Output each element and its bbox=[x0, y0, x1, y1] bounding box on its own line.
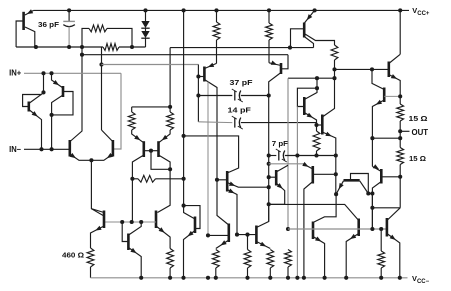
bottom VCC- rail bbox=[91, 277, 408, 279]
node Q3 base-collector tie bbox=[50, 113, 54, 117]
label 36 pF bbox=[38, 20, 59, 29]
label 460 ohm bbox=[62, 251, 84, 260]
junction R11 base-wire tap bbox=[286, 227, 290, 231]
junction Q24 base on x336 bbox=[334, 172, 338, 176]
transistor Q22 (diode-connected, horizontal bar) bbox=[336, 174, 368, 195]
svg-text:36 pF: 36 pF bbox=[38, 20, 59, 29]
wire OUT stub bbox=[400, 130, 409, 132]
junction rail R15 bbox=[379, 276, 383, 280]
junction rail Q24C bbox=[302, 276, 306, 280]
junction rail x297 bbox=[295, 276, 299, 280]
label OUT bbox=[412, 128, 429, 137]
wire bias column x183 bbox=[183, 10, 185, 205]
resistor R269 (Q7 emitter) bbox=[266, 10, 273, 62]
transistor Q15 (NPN) bbox=[269, 165, 288, 204]
wire QB collector down to Q12 bbox=[158, 169, 171, 212]
svg-text:OUT: OUT bbox=[412, 128, 429, 137]
junction R6 right on bias column bbox=[182, 177, 186, 181]
junction base wire 3 bbox=[139, 220, 143, 224]
wire Q7 collector spine x268 bbox=[268, 96, 270, 222]
node Q13 base-collector tie bbox=[182, 204, 186, 208]
junction 7pF tap bbox=[267, 153, 271, 157]
junction wire y78 bbox=[332, 76, 336, 80]
wire x101 vertical bbox=[101, 47, 103, 130]
svg-text:37 pF: 37 pF bbox=[230, 78, 253, 87]
wire E1 to Q11 collector bbox=[91, 160, 104, 216]
resistor R13 15 ohm upper bbox=[397, 96, 404, 138]
wire net-C drop bbox=[197, 65, 199, 122]
transistor Q28 (diode-connected NPN) bbox=[122, 222, 141, 278]
wire Q9 tie drop bbox=[316, 78, 318, 88]
junction lower wire node bbox=[398, 136, 402, 140]
junction IN+ diode Q3 bbox=[49, 71, 53, 75]
svg-text:IN−: IN− bbox=[9, 145, 21, 154]
svg-text:15 Ω: 15 Ω bbox=[409, 114, 428, 123]
resistor R9 bbox=[244, 235, 251, 278]
junction base bus R14b tap bbox=[379, 227, 383, 231]
junction Q19 collector tap bbox=[370, 67, 374, 71]
junction rail Q26E bbox=[344, 276, 348, 280]
node Q1 B-C tie on bottom-left wire bbox=[34, 45, 38, 49]
resistor R6 (bias) bbox=[132, 175, 183, 182]
resistor R12 bbox=[313, 125, 320, 156]
resistor R11 (x288 to rail) bbox=[285, 250, 292, 278]
junction C1 bottom bbox=[67, 45, 71, 49]
transistor Q18 (NPN output top) bbox=[389, 54, 400, 96]
wire Q19-E to R14 row bbox=[372, 137, 400, 139]
wire net-C horizontal bbox=[102, 64, 199, 66]
junction 7pF Q10 emitter bbox=[334, 153, 338, 157]
wire x400 lower drop bbox=[399, 177, 401, 208]
junction Q20 base node bbox=[398, 175, 402, 179]
wire R3 to diode corner bbox=[119, 46, 146, 48]
junction net-B bbox=[80, 53, 84, 57]
node Q2 collector-IN+ tie bbox=[41, 90, 45, 94]
junction Q15 base tap bbox=[267, 175, 271, 179]
junction 37pF right on Q7 collector bbox=[267, 93, 271, 97]
node QB base-collector tie bbox=[168, 167, 172, 171]
wire y78 horizontal bbox=[288, 77, 335, 79]
junction Q6 emitter on rail bbox=[313, 8, 317, 12]
resistor R4 (mirror emitter left) bbox=[128, 107, 135, 130]
junction Q15 emitter / Q17 collector bbox=[267, 202, 271, 206]
top V+ rail bbox=[34, 9, 409, 11]
junction R9 tap bbox=[245, 233, 249, 237]
junction R2 return bbox=[130, 45, 134, 49]
transistor Q13 (bias diode NPN) bbox=[184, 206, 201, 278]
wire mirror bases bbox=[144, 150, 159, 152]
wire y78 left drop x288 bbox=[287, 78, 289, 229]
resistor R14 15 ohm lower bbox=[397, 138, 404, 177]
transistor Q6 (PNP dual collector) bbox=[291, 10, 335, 47]
transistor Q14 (dual emitter NPN) bbox=[217, 171, 269, 235]
junction Q9E/Q10B/14pF/R12 bbox=[314, 123, 318, 127]
label VCC- bbox=[412, 274, 430, 285]
transistor Q1 (diode-connected PNP) bbox=[16, 9, 35, 47]
node Q22 base-collector tie bbox=[366, 191, 370, 195]
junction y78 Q9 tap bbox=[315, 76, 319, 80]
wire mirror base tie-down bbox=[151, 151, 170, 170]
transistor Q19 (NPN driver) bbox=[372, 69, 400, 166]
wire net-A horizontal bbox=[170, 47, 313, 49]
label IN+ bbox=[9, 69, 21, 78]
junction base wire 1 bbox=[120, 220, 124, 224]
capacitor C3 14 pF bbox=[198, 116, 316, 129]
junction x372 on y138 bbox=[370, 136, 374, 140]
node Q22 emitter / Q25 collector bbox=[334, 192, 338, 196]
junction Q14 E2 / Q17 base bbox=[235, 233, 239, 237]
transistor Q24 (PNP driver) bbox=[302, 162, 336, 278]
transistor Q5 (PNP dual collector) bbox=[198, 63, 217, 236]
junction rail R11 bbox=[286, 276, 290, 280]
transistor Q10 (NPN) bbox=[317, 78, 336, 155]
wire output driver base bbox=[335, 68, 389, 70]
wire x336 spine lower bbox=[335, 156, 337, 195]
junction Q14 base on x217 bbox=[215, 178, 219, 182]
junction 7pF x297 bbox=[295, 153, 299, 157]
junction bias column on rail bbox=[182, 8, 186, 12]
junction D1 anode on rail bbox=[143, 8, 147, 12]
transistor Q25 (NPN output sink left) bbox=[313, 222, 325, 278]
junction rail Q28 bbox=[139, 276, 143, 280]
junction C1 top on rail bbox=[67, 8, 71, 12]
wire x372 to base bus bbox=[371, 194, 373, 230]
resistor R5 (mirror emitter right) bbox=[167, 107, 174, 130]
wire mirror top bbox=[132, 106, 170, 108]
junction x82 on wire bbox=[80, 45, 84, 49]
label IN- bbox=[9, 145, 21, 154]
wire y207 link bbox=[372, 207, 400, 209]
transistor Q27 (NPN output bottom) bbox=[387, 208, 400, 278]
transistor Q11 (PNP... NPN w/460) bbox=[91, 209, 105, 248]
junction Q14 emitter1 tap bbox=[267, 185, 271, 189]
junction Q24 emitter wire tap bbox=[267, 162, 271, 166]
junction mirror top right bbox=[168, 105, 172, 109]
transistor Q7 (PNP second stage) bbox=[269, 55, 288, 96]
resistor R1 460 ohm bbox=[87, 248, 94, 278]
label 15 ohm lower bbox=[409, 154, 426, 163]
wire VCC+ drop to Q18 bbox=[399, 10, 401, 54]
junction rail Q27E bbox=[398, 276, 402, 280]
resistor R7 (Q12 emitter) bbox=[167, 249, 174, 278]
capacitor C1 36 pF bbox=[63, 10, 75, 47]
resistor R10 (Q17 emitter) bbox=[267, 250, 274, 278]
wire Q14 collector net bbox=[184, 136, 239, 173]
svg-text:7 pF: 7 pF bbox=[272, 139, 289, 148]
wire Q25 collector path bbox=[313, 194, 336, 222]
junction rail Q13 bbox=[181, 276, 185, 280]
resistor R15 (base bus to rail) bbox=[378, 229, 385, 278]
wire Q22 tie to Q20 collector bbox=[368, 193, 372, 195]
junction Q18 emitter node bbox=[398, 94, 402, 98]
junction rail R7 bbox=[168, 276, 172, 280]
capacitor C4 7 pF bbox=[269, 149, 336, 162]
wire IN+ input bbox=[24, 72, 121, 74]
junction R269 on rail bbox=[267, 8, 271, 12]
junction x372 y193 bbox=[370, 191, 374, 195]
wire x297 drop bbox=[296, 107, 298, 278]
svg-text:14 pF: 14 pF bbox=[228, 105, 252, 114]
junction IN- Q2 emitter bbox=[39, 147, 43, 151]
junction Q29 base on x208 bbox=[206, 233, 210, 237]
wire net-B horizontal bbox=[82, 54, 288, 56]
wire output base bus bbox=[288, 228, 387, 230]
wire net-A drop to mirror bbox=[169, 48, 171, 107]
label 37 pF bbox=[230, 78, 253, 87]
transistor QA (mirror PNP left) bbox=[132, 130, 144, 222]
wire IN- input bbox=[24, 148, 70, 150]
junction rail R9 bbox=[245, 276, 249, 280]
wire bottom-left node row bbox=[16, 46, 103, 48]
junction mirror bases bbox=[149, 149, 153, 153]
capacitor C2 37 pF bbox=[198, 89, 268, 102]
junction rail x208 bbox=[206, 276, 210, 280]
junction wire-C tap bbox=[99, 62, 103, 66]
junction output-driver base wire bbox=[332, 67, 336, 71]
junction R216 on rail bbox=[214, 8, 218, 12]
junction R6 left on QA collector line bbox=[130, 177, 134, 181]
wire net-B x82 drop bbox=[81, 47, 83, 55]
label 15 ohm upper bbox=[409, 114, 428, 123]
transistor QB (mirror PNP right, diode-connected) bbox=[159, 130, 171, 169]
junction base wire 2 bbox=[130, 220, 134, 224]
transistor Q3 (input clamp diode PNP) bbox=[52, 73, 74, 149]
junction base bus x372 bbox=[370, 227, 374, 231]
transistor Q26 (NPN output sink right) bbox=[269, 204, 359, 277]
transistor Q17 (NPN) bbox=[237, 204, 270, 248]
node E1 joined emitters bbox=[89, 158, 93, 162]
wire Q24 emitter feed bbox=[269, 163, 303, 165]
transistor Q2 (input clamp diode NPN) bbox=[23, 73, 44, 149]
transistor Q29 (NPN current sink) bbox=[208, 180, 229, 249]
junction net-A Q6 base bbox=[288, 46, 292, 50]
label VCC+ bbox=[412, 6, 430, 17]
svg-text:IN+: IN+ bbox=[9, 69, 21, 78]
junction Q14 collector wire tap bbox=[182, 134, 186, 138]
svg-text:15 Ω: 15 Ω bbox=[409, 154, 426, 163]
resistor R336 (Q6 collector load) bbox=[331, 45, 338, 78]
junction OUT node bbox=[398, 129, 402, 133]
wire x82 vertical to Q4 collector bbox=[81, 55, 83, 130]
transistor Q12 (NPN) bbox=[104, 211, 170, 249]
label 7 pF bbox=[272, 139, 289, 148]
junction IN- Q3 collector bbox=[50, 147, 54, 151]
transistor Q9 (diode-connected NPN) bbox=[297, 88, 317, 125]
transistor Q4 (input NPN, inverting) bbox=[70, 130, 92, 160]
node Q9 base-collector tie bbox=[315, 86, 319, 90]
resistor R3 (series in wire) bbox=[103, 44, 119, 51]
junction Q5 base bbox=[196, 74, 200, 78]
resistor R8 (Q29 emitter) bbox=[212, 250, 219, 278]
junction rail Q25E bbox=[323, 276, 327, 280]
junction VCC+ node bbox=[398, 8, 402, 12]
resistor R2 (feedback loop) bbox=[82, 25, 132, 47]
diode D1 bbox=[141, 10, 149, 28]
diode D2 bbox=[141, 28, 149, 47]
svg-text:460 Ω: 460 Ω bbox=[62, 251, 84, 260]
label 14 pF bbox=[228, 105, 252, 114]
junction rail R8 bbox=[214, 276, 218, 280]
transistor Q8 (input NPN, non-inverting) bbox=[91, 130, 113, 160]
junction 37pF left bbox=[196, 93, 200, 97]
junction 7pF R12 bbox=[314, 153, 318, 157]
transistor Q20 (PNP lower driver) bbox=[372, 164, 400, 229]
junction x372 y207 bbox=[370, 206, 374, 210]
junction IN+ diode Q2 bbox=[41, 71, 45, 75]
junction rail R10 bbox=[268, 276, 272, 280]
resistor R216 (Q5 emitter degeneration) bbox=[213, 10, 220, 63]
wire IN+ drop to Q8 base bbox=[113, 73, 121, 149]
